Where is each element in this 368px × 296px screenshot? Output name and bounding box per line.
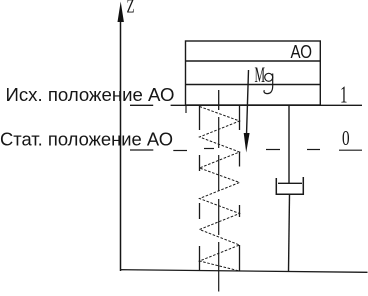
svg-text:Исх. положение АО: Исх. положение АО — [6, 85, 175, 105]
level 1 tick below line — [185, 105, 187, 113]
damper piston plate — [278, 182, 302, 184]
ground line — [120, 270, 368, 273]
spring axis dashed centerline — [218, 117, 220, 292]
damper rod lower — [289, 194, 290, 271]
spring right side dashes — [239, 105, 241, 271]
svg-text:1: 1 — [340, 82, 348, 109]
spring coil zigzag — [200, 107, 240, 272]
Z axis — [120, 9, 122, 271]
force arrow Mg head — [244, 133, 250, 153]
svg-text:Стат. положение АО: Стат. положение АО — [0, 130, 173, 150]
svg-text:АО: АО — [291, 41, 313, 62]
Z axis arrowhead — [118, 2, 124, 23]
level line 0 (Стат. положение, dashed) — [130, 149, 362, 151]
force label g bowl — [265, 73, 273, 81]
svg-text:0: 0 — [342, 126, 350, 150]
mass block AO outer rectangle — [186, 41, 321, 105]
force label g descender hook — [264, 74, 273, 94]
damper rod upper — [288, 105, 290, 183]
spring left side dashes — [199, 106, 201, 271]
mass block divider 2 — [186, 84, 321, 86]
level line 1 (Исх. положение) — [130, 104, 362, 106]
svg-text:M: M — [255, 62, 266, 87]
svg-text:Z: Z — [127, 0, 135, 17]
force arrow Mg shaft — [247, 70, 249, 135]
mass block divider 1 — [186, 60, 321, 62]
spring top stub — [218, 90, 220, 110]
damper cylinder cup — [276, 177, 303, 194]
